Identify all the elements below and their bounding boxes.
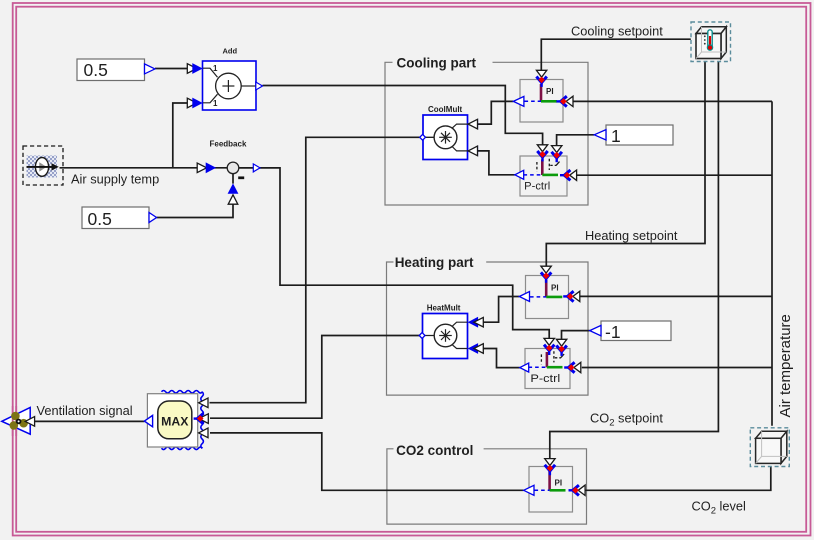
wire cooling setpoint from thermo icon to cooling PI top [541,39,691,70]
svg-text:Heating part: Heating part [395,255,474,270]
svg-text:HeatMult: HeatMult [427,304,461,313]
svg-text:1: 1 [611,126,621,146]
block heating P-ctrl [520,349,570,389]
block CO2 PI [524,467,573,513]
arrow into MAX in1 [199,398,208,408]
constant 1 [594,125,673,146]
svg-text:Ventilation signal: Ventilation signal [37,403,133,418]
block Add [203,47,263,111]
arrow into Feedback bottom [228,183,239,204]
sensor icon air temperature thermometer cube [691,22,731,62]
block Feedback [210,140,261,178]
block heating PI [519,276,568,319]
svg-text:CO2 control: CO2 control [396,443,473,458]
arrow into CoolMult in2 [468,146,478,157]
svg-text:0.5: 0.5 [84,60,108,80]
sensor icon CO2 cube [750,428,789,467]
svg-text:MAX: MAX [161,414,189,428]
wire const0.5a to Add in1 [155,68,197,70]
svg-text:1: 1 [213,99,218,108]
wire Add output to cooling P-ctrl setpoint [263,86,543,146]
connector cooling PI right input [556,96,573,106]
svg-text:P-ctrl: P-ctrl [524,181,550,193]
output ventilation fan icon [2,406,30,436]
svg-text:Add: Add [223,47,238,56]
wire air supply temp line [60,167,228,169]
wire Feedback output to heating P-ctrl setpoint [239,168,549,339]
connector heating P-ctrl top input 2 [556,339,566,356]
group Cooling part [385,62,588,205]
connector CO2 PI right input [569,485,586,495]
block MAX [144,391,203,450]
wire heating PI output to HeatMult in1 [470,297,519,323]
svg-text:PI: PI [546,87,554,96]
arrow into Feedback left [197,162,216,173]
wire Feedback bottom stub [232,174,234,184]
wire cooling PI right input [573,100,773,102]
wire const1 to cooling P-ctrl limit input [557,135,595,146]
wire heating PI right input [580,295,772,297]
wire const0.5b to Feedback bottom [157,195,233,218]
svg-text:0.5: 0.5 [88,209,112,229]
arrow into CoolMult in1 [468,119,478,130]
connector cooling P-ctrl top input 1 [537,145,547,162]
svg-text:-1: -1 [605,322,621,342]
svg-text:PI: PI [555,479,563,488]
arrow into HeatMult in2 [468,343,484,354]
wire cooling P-ctrl right input [576,174,772,176]
constant 0.5 (bottom) [82,207,157,229]
connector heating PI top input [541,266,551,283]
block HeatMult [419,304,467,359]
connector cooling P-ctrl right input [560,170,577,180]
wire heating setpoint from thermo icon to heating PI top [546,62,705,267]
block CoolMult [420,105,468,160]
connector heating PI right input [563,291,580,301]
arrow into HeatMult in1 [468,317,484,328]
group Heating part [387,262,589,395]
group CO2 control [387,449,587,524]
block cooling P-ctrl [515,156,567,196]
connector cooling P-ctrl top input 2 [552,146,562,163]
block cooling PI [513,80,563,123]
wire heating P-ctrl output to HeatMult in2 [470,349,520,368]
svg-text:Feedback: Feedback [210,140,247,149]
wire cooling PI output to CoolMult in1 [470,101,513,124]
svg-text:PI: PI [551,284,559,293]
constant -1 [590,321,671,342]
wire CO2 PI output to MAX in3 [210,433,524,490]
wire CoolMult output to MAX in1 [210,137,422,402]
connector heating P-ctrl right input [564,362,581,372]
arrow into ventilation output [25,417,34,427]
wire CO2 level from cube to CO2 PI right input [585,466,771,490]
svg-text:Cooling setpoint: Cooling setpoint [571,24,663,39]
svg-text:Air temperature: Air temperature [777,314,794,417]
wire const-1 to heating P-ctrl limit input [562,331,590,340]
arrow into MAX in2 with connector [194,413,209,424]
connector cooling PI top input [536,70,546,87]
wire HeatMult output to MAX in2 [210,336,421,419]
constant 0.5 (top) [77,59,155,81]
connector CO2 PI top input [545,459,555,476]
wire cooling P-ctrl output to CoolMult in2 [470,151,515,175]
svg-text:Air supply temp: Air supply temp [71,172,159,187]
wire MAX output to ventilation signal [35,420,145,422]
svg-text:P-ctrl: P-ctrl [530,373,560,385]
arrow into MAX in3 [199,428,208,438]
svg-text:1: 1 [213,64,218,73]
arrow into Add in1 [187,63,202,74]
wire heating P-ctrl right input [582,367,772,369]
svg-text:Heating setpoint: Heating setpoint [585,228,678,243]
wire junction up to Add in2 [173,103,197,168]
wire CO2 setpoint from thermo icon to CO2 PI top [550,62,719,460]
connector heating P-ctrl top input 1 [544,338,554,355]
source icon Air supply temp [23,146,63,185]
arrow into Add in2 [187,98,202,109]
svg-text:Cooling part: Cooling part [397,56,477,71]
wire air temperature vertical [771,101,773,425]
svg-text:CoolMult: CoolMult [428,105,463,114]
